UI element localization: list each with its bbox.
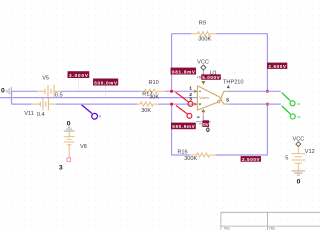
output probe VF2 (green) [282, 106, 296, 119]
voltage label 3.000V [68, 71, 90, 90]
pin3 wire end dot [193, 103, 195, 105]
svg-text:3: 3 [59, 165, 63, 172]
op-amp input arrow pin1 [194, 90, 197, 93]
voltage label 681.8mV [171, 68, 196, 75]
voltage label 2.500V (bottom) [241, 156, 261, 162]
svg-text:681.8mV: 681.8mV [172, 69, 196, 74]
svg-text:0: 0 [297, 179, 301, 186]
svg-text:V8: V8 [80, 144, 87, 150]
svg-text:1: 1 [189, 85, 192, 91]
ground net 0 (far left, rotated) [7, 87, 11, 95]
svg-text:0V: 0V [203, 122, 210, 127]
svg-text:0: 0 [67, 120, 71, 127]
svg-text:590.9mV: 590.9mV [172, 124, 195, 129]
voltage label 2.500V (top right) [267, 63, 287, 69]
svg-text:V12: V12 [305, 149, 315, 155]
svg-text:2.500V: 2.500V [268, 64, 287, 69]
junction row3 left [170, 103, 173, 106]
svg-text:0: 0 [1, 88, 5, 95]
svg-text:5: 5 [285, 156, 288, 162]
ground above V8 [64, 127, 75, 131]
junction row1 left [170, 90, 173, 93]
output probe VF1 (green) [282, 93, 295, 106]
battery V12 [292, 147, 306, 171]
voltage arrow probe (purple) [82, 105, 98, 119]
feedback vertical right top [266, 34, 268, 92]
VCC pin arrow (down) [201, 81, 205, 85]
wire row1 mid [62, 90, 141, 92]
svg-text:0: 0 [206, 127, 210, 134]
svg-text:300K: 300K [198, 37, 211, 43]
svg-text:+5: +5 [197, 75, 201, 79]
VCC diamond (V12) [296, 142, 301, 147]
svg-text:5: 5 [226, 97, 229, 103]
wire row1 to opamp [165, 90, 194, 92]
svg-text:V2: V2 [297, 115, 301, 119]
minus sign (IN-) [199, 90, 201, 92]
wire row3 left [12, 103, 32, 105]
wire vertical ground to row3 [11, 91, 13, 104]
resistor R9 [191, 32, 216, 36]
wire row2 (middle, to Vocm pin) [0, 97, 194, 99]
ground below V12 [292, 171, 306, 175]
svg-text:V11: V11 [24, 111, 34, 117]
wire row3 mid [56, 103, 137, 105]
svg-text:30K: 30K [141, 108, 151, 114]
svg-text:THP210: THP210 [223, 79, 244, 85]
VEE pin arrow (up) [201, 109, 205, 112]
svg-text:V5: V5 [42, 76, 49, 82]
output wire row3 [229, 103, 281, 105]
plus sign (IN+) [199, 103, 201, 105]
svg-text:R17: R17 [142, 92, 152, 98]
battery V8 [64, 131, 74, 158]
feedback vertical right bottom [266, 104, 268, 155]
resistor R17 [137, 102, 158, 106]
svg-text:V1: V1 [297, 102, 301, 106]
svg-text:R16: R16 [177, 150, 187, 156]
voltage label 500.0mV [93, 79, 118, 97]
feedback vertical left bottom [171, 104, 173, 155]
wire row1 left [12, 90, 38, 92]
svg-text:5.000V: 5.000V [202, 75, 220, 80]
battery V11 [31, 98, 56, 110]
ground below op-amp [196, 122, 211, 126]
feedback vertical left top [171, 34, 173, 92]
battery V5 [37, 85, 61, 97]
svg-text:300K: 300K [184, 156, 197, 162]
svg-text:0.5: 0.5 [55, 92, 63, 98]
op-amp input arrow pin3 [194, 103, 197, 106]
wire row3 to opamp [158, 103, 193, 105]
output wire row1 [229, 90, 281, 92]
VEE pin stub [202, 112, 204, 115]
voltage label 5.000V [201, 74, 221, 80]
voltage label 0V [203, 120, 210, 127]
junction row1 right [266, 90, 269, 93]
VCC diamond [201, 65, 206, 70]
VEE wire to ground [202, 116, 204, 122]
VCC pin wire [202, 70, 204, 74]
svg-text:R10: R10 [149, 80, 159, 86]
svg-text:R9: R9 [199, 21, 206, 27]
svg-text:Vocm: Vocm [199, 96, 209, 100]
junction row3 right [266, 103, 269, 106]
V8 terminal square [67, 158, 71, 162]
voltage pin marker A (red) [176, 92, 193, 106]
Vocm pin stub [194, 97, 198, 99]
top feedback wire [172, 33, 268, 35]
svg-text:∞: ∞ [197, 115, 200, 120]
svg-text:Title: Title [224, 227, 231, 231]
resistor R16 [190, 153, 216, 157]
voltage pin marker B (red) [176, 105, 192, 118]
svg-text:500.0mV: 500.0mV [94, 80, 118, 85]
svg-text:Title: Title [269, 227, 276, 231]
voltage label 590.9mV [171, 123, 196, 130]
resistor R10 [140, 89, 165, 93]
bottom feedback wire [172, 154, 268, 156]
svg-text:0.4: 0.4 [37, 112, 45, 118]
svg-text:4: 4 [227, 85, 230, 91]
svg-text:3.000V: 3.000V [69, 73, 89, 78]
svg-text:2.500V: 2.500V [242, 157, 261, 162]
title block [221, 212, 320, 230]
op-amp U1 THP210 [197, 86, 229, 111]
svg-text:VCC: VCC [197, 59, 209, 65]
